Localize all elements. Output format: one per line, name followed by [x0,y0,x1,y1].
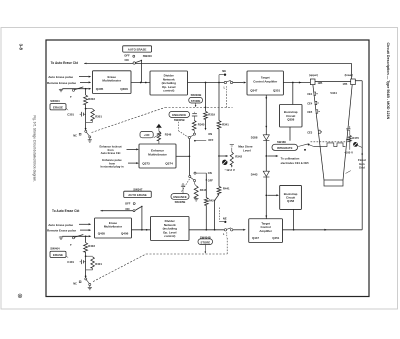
svg-text:SW480: SW480 [277,140,286,144]
svg-text:Circuit Description — Type 564: Circuit Description — Type 564B - MOD 12… [386,43,390,120]
svg-text:Q306: Q306 [120,87,128,91]
svg-text:3-8: 3-8 [19,44,24,51]
svg-text:Q447: Q447 [252,236,259,240]
svg-text:control): control) [164,234,175,238]
svg-text:D358: D358 [251,136,258,140]
svg-text:Grid: Grid [359,166,365,170]
svg-text:SW404: SW404 [50,247,60,251]
svg-text:To collimation: To collimation [281,156,300,160]
svg-text:CE3: CE3 [307,130,313,134]
svg-text:(upper): (upper) [309,73,318,77]
svg-text:SW304B: SW304B [191,93,202,97]
svg-text:12B: 12B [317,81,322,85]
svg-text:CE4: CE4 [307,101,313,105]
svg-text:SW347: SW347 [133,187,143,191]
svg-text:INTEGRATE: INTEGRATE [277,146,293,150]
svg-text:NC: NC [73,134,77,138]
svg-text:ON: ON [125,207,129,211]
svg-text:C401: C401 [67,260,74,264]
svg-text:STORE: STORE [201,240,211,244]
svg-text:from: from [107,148,114,152]
svg-text:SW305B: SW305B [174,118,185,122]
svg-text:R401: R401 [95,262,102,266]
svg-text:Q351: Q351 [273,89,281,93]
svg-text:R341: R341 [222,122,229,126]
svg-text:ERASE: ERASE [53,253,63,257]
svg-text:Control Amplifier: Control Amplifier [253,80,278,84]
svg-text:from: from [109,161,116,165]
svg-text:Q458: Q458 [287,199,294,203]
svg-text:Q305: Q305 [96,87,104,91]
svg-text:Level: Level [243,148,251,152]
svg-text:Remote Erase pulse: Remote Erase pulse [47,229,76,233]
svg-text:horizontal plug-in: horizontal plug-in [100,165,123,169]
svg-text:STORE: STORE [191,99,201,103]
svg-text:R346: R346 [165,132,172,136]
svg-text:NE: NE [223,216,227,220]
svg-text:Fig. 3-5. Storage Circuit deta: Fig. 3-5. Storage Circuit detailed block… [32,116,36,182]
svg-text:−12.2 V: −12.2 V [225,168,235,172]
svg-text:R403: R403 [88,244,95,248]
svg-text:Enhance pulse: Enhance pulse [102,158,122,162]
svg-text:ERASE: ERASE [53,106,63,110]
svg-text:C301: C301 [67,113,74,117]
svg-text:Amplifier: Amplifier [259,229,272,233]
svg-text:To Auto Erase Ckt: To Auto Erase Ckt [52,209,80,213]
svg-text:T: T [70,95,72,99]
svg-text:control): control) [163,89,174,93]
svg-text:Q451: Q451 [272,236,279,240]
svg-text:Enhance lockout: Enhance lockout [99,144,121,148]
svg-text:R446: R446 [200,188,207,192]
svg-text:OFF: OFF [208,138,214,142]
svg-text:T: T [70,243,72,247]
svg-text:(lower): (lower) [345,73,354,77]
svg-text:Auto Erase pulse: Auto Erase pulse [48,223,73,227]
svg-text:Multivibrator: Multivibrator [148,153,168,157]
svg-text:R319: R319 [208,113,215,117]
svg-text:Q405: Q405 [98,232,106,236]
svg-text:electrodes CE1 & CE5: electrodes CE1 & CE5 [281,161,310,165]
svg-text:OFF: OFF [125,202,131,206]
svg-text:Q373: Q373 [142,162,150,166]
svg-text:ON: ON [208,132,212,136]
svg-text:To Auto Erase Ckt: To Auto Erase Ckt [51,61,79,65]
svg-text:Q358: Q358 [287,118,294,122]
svg-text:V344: V344 [330,91,337,95]
svg-text:NE: NE [222,69,226,73]
svg-text:R441: R441 [223,187,230,191]
svg-text:Q374: Q374 [165,162,173,166]
svg-text:Q347: Q347 [250,89,258,93]
svg-text:+100: +100 [144,134,150,137]
svg-text:R470: R470 [352,136,359,140]
svg-text:R345: R345 [198,123,205,127]
svg-text:Auto Erase Ckt: Auto Erase Ckt [101,151,121,155]
svg-text:−100 V: −100 V [344,151,353,155]
svg-text:ON: ON [208,171,212,175]
svg-text:CE5: CE5 [307,110,313,114]
svg-text:R424: R424 [209,198,216,202]
svg-text:OFF: OFF [124,53,130,57]
svg-text:R301: R301 [95,115,102,119]
svg-text:D443: D443 [251,173,258,177]
svg-text:R342: R342 [235,154,242,158]
svg-text:Multivibrator: Multivibrator [102,79,122,83]
svg-text:SW310: SW310 [143,54,153,58]
svg-text:SW405B: SW405B [175,200,186,204]
svg-text:SW304: SW304 [50,99,60,103]
svg-text:OFF: OFF [208,179,214,183]
svg-text:Multivibrator: Multivibrator [104,224,123,228]
svg-text:AUTO ERASE: AUTO ERASE [128,193,147,197]
svg-text:ENHANCE: ENHANCE [173,195,186,199]
svg-text:Remote Erase pulse: Remote Erase pulse [47,81,76,85]
svg-text:Auto Erase pulse: Auto Erase pulse [48,75,73,79]
svg-text:Q406: Q406 [121,232,129,236]
svg-text:ON: ON [125,58,129,62]
svg-text:CE1: CE1 [307,92,313,96]
svg-text:R303: R303 [88,97,95,101]
svg-text:ENHANCE: ENHANCE [172,113,186,117]
svg-text:NC: NC [73,281,77,285]
svg-text:R: R [19,294,21,298]
svg-text:17B: 17B [342,82,347,86]
svg-text:AUTO ERASE: AUTO ERASE [128,48,147,52]
